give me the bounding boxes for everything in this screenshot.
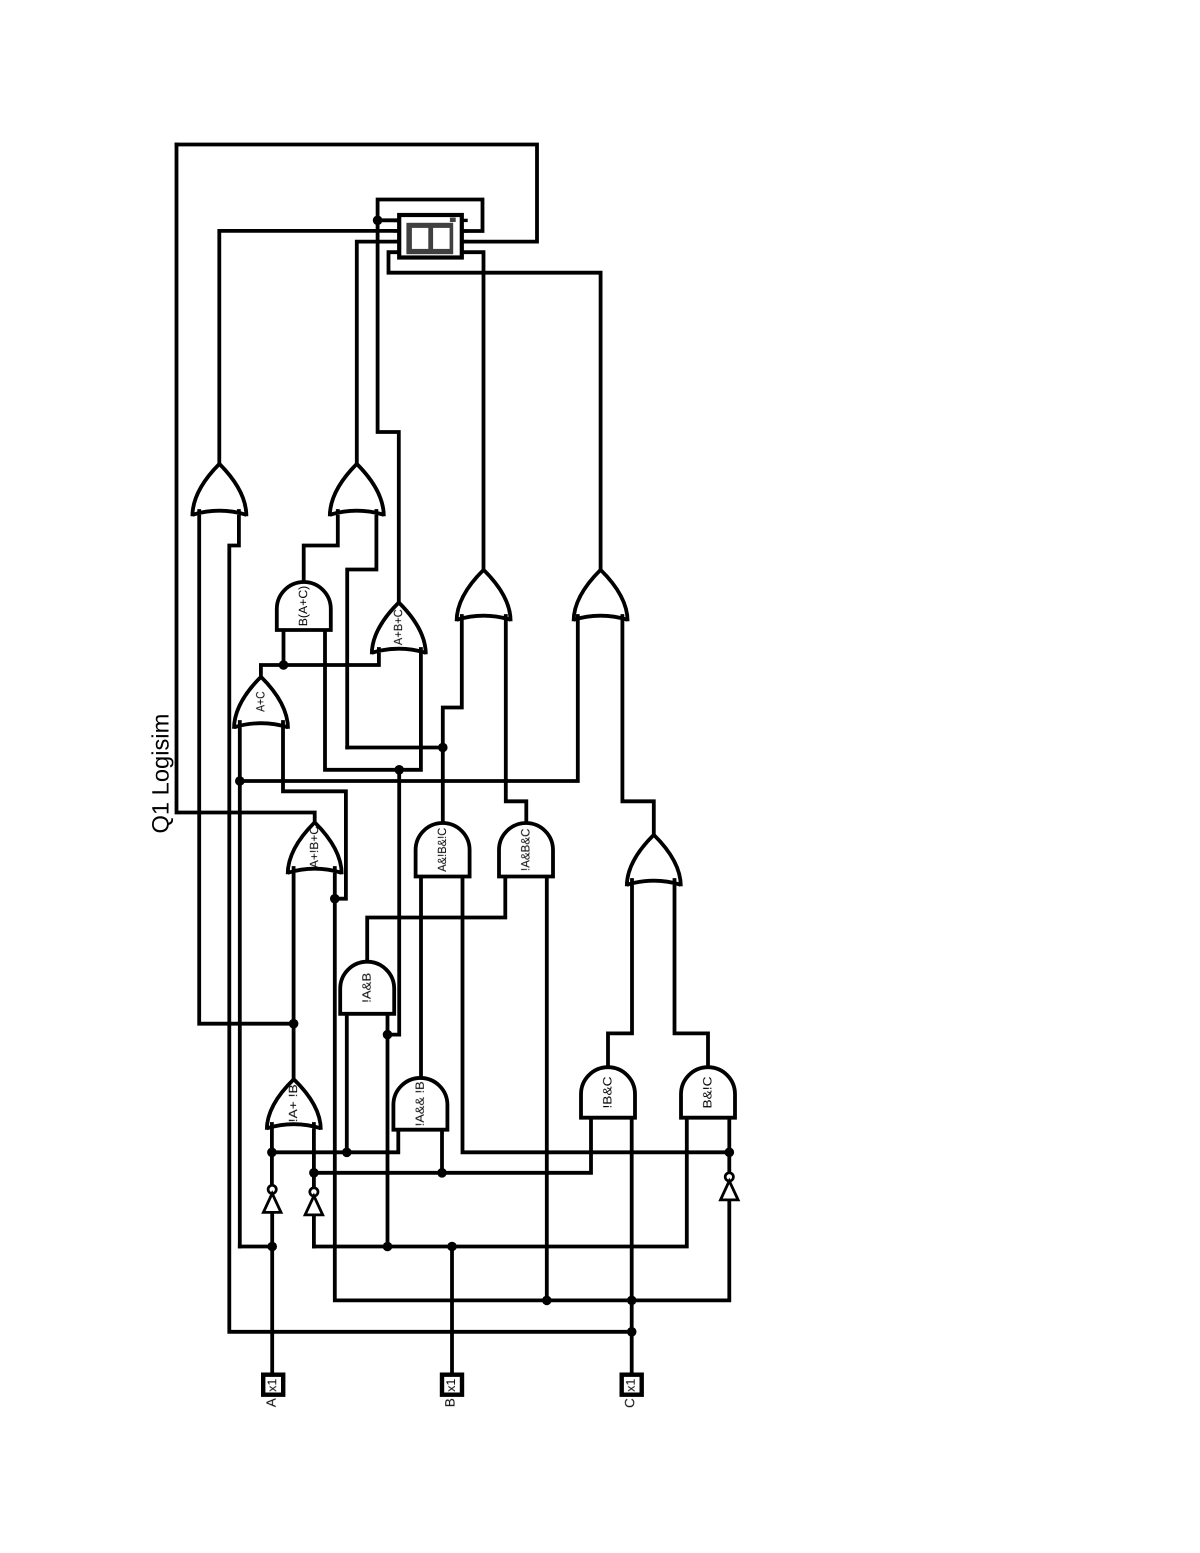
node !B rail tap: [437, 1168, 447, 1178]
node !B node: [309, 1168, 319, 1178]
7-segment display U17: [399, 215, 462, 258]
wire !A&B in2 / B vertical: [386, 1014, 390, 1247]
wire A&!B&!C in1 from !A&&!B output: [419, 877, 423, 1078]
node B to net770 node: [383, 1030, 393, 1040]
wire big OR in1 from !B&C output: [608, 880, 632, 1067]
wire B(A+C) in1 stub: [282, 630, 286, 665]
svg-text:x1: x1: [265, 1379, 279, 1392]
wire OR2 in2 jog down: [347, 511, 376, 748]
wire 7seg pin4-right to wide OR A output: [464, 252, 484, 570]
node A pin node: [267, 1242, 277, 1252]
svg-text:x1: x1: [624, 1379, 638, 1392]
node !C node: [725, 1148, 735, 1158]
wire !B&C in2 down to C pin: [630, 1118, 634, 1373]
wire wide OR A in2 from !A&B&C output: [506, 616, 527, 823]
NOT gate NOT3 (!C): [725, 1173, 733, 1181]
node C node: [330, 894, 340, 904]
node A rail tap: [235, 776, 245, 786]
OR gate U2 (unlabeled OR): [330, 464, 357, 516]
wire big OR in2 from B&!C output: [675, 880, 709, 1067]
wire A+C in2 jog to C node: [283, 722, 346, 899]
svg-text:B&!C: B&!C: [700, 1076, 714, 1108]
svg-text:A: A: [264, 1398, 279, 1407]
OR gate U1 (unlabeled OR): [192, 464, 219, 516]
svg-text:x1: x1: [444, 1379, 458, 1392]
svg-text:!A&& !B: !A&& !B: [413, 1081, 427, 1126]
wire 7seg pin3-right loop (top): [177, 145, 538, 242]
AND gate U12 !A&B: [340, 962, 394, 1014]
node C pin node: [627, 1327, 637, 1337]
node !A rail tap: [342, 1148, 352, 1158]
node B rail tap: [383, 1242, 393, 1252]
svg-text:A&!B&!C: A&!B&!C: [435, 827, 449, 871]
wire A&!B&!C in2 / !C rail: [463, 877, 730, 1153]
NOT gate NOT1 (!A): [268, 1185, 276, 1193]
wire OR1 output to 7seg pin2-left: [219, 231, 397, 464]
wire !A+!B in1 to NOT1 output: [270, 1124, 274, 1184]
node pin1 junction: [373, 216, 383, 226]
wire B(A+C) in2 to A+B+C in3 (B branch): [325, 630, 421, 770]
AND gate U3 B(A+C): [277, 582, 331, 630]
wire A+C in1 / A rail: [238, 722, 242, 1247]
wire wide OR A in1 step to A&!B&!C output: [443, 616, 462, 823]
wire A rail link: [240, 1245, 272, 1249]
wire B branch down: [388, 770, 400, 1035]
wire !A&B in1 to !A rail: [345, 1014, 349, 1153]
input pin B (B x1): [442, 1375, 462, 1395]
OR gate U7 (wide OR B): [574, 570, 601, 621]
wire OR2 in1 from B(A+C) output: [304, 511, 338, 582]
svg-text:A+C: A+C: [253, 691, 267, 712]
node A&!B&!C out node: [438, 743, 448, 753]
wire wide OR B in1 to A rail: [240, 616, 578, 781]
node B branch node: [394, 765, 404, 775]
input pin C (C x1): [622, 1375, 642, 1395]
OR gate U6 (wide OR A): [457, 570, 484, 621]
OR gate U5 A+C: [234, 677, 261, 729]
AND gate U15 !B&C: [581, 1067, 635, 1118]
AND gate U14 !A&& !B: [393, 1078, 447, 1130]
wire 7seg pin4-left to wide OR B output: [389, 252, 601, 570]
svg-text:Q1 Logisim: Q1 Logisim: [149, 714, 175, 834]
wire NOT1 input / A pin riser: [270, 1214, 274, 1372]
wire B pin riser: [450, 1247, 454, 1373]
AND gate U16 B&!C: [681, 1067, 735, 1118]
wire OR1 in2 / C rail: [229, 511, 631, 1332]
OR gate U8 A+!B+C: [288, 822, 315, 874]
wire wide OR B in2 from big OR output: [622, 616, 653, 835]
OR gate U11 (big OR): [627, 835, 654, 886]
svg-text:B(A+C): B(A+C): [296, 586, 310, 627]
wire A+!B+C in1 to !A+!B output: [292, 868, 296, 1079]
svg-text:A+!B+C: A+!B+C: [307, 826, 321, 868]
7seg digit segments: [406, 223, 453, 254]
svg-text:C: C: [622, 1398, 637, 1408]
svg-text:B: B: [443, 1398, 458, 1407]
wire !A rail to !A&&!B in1: [272, 1130, 398, 1153]
svg-text:A+B+C: A+B+C: [391, 609, 405, 645]
wire A+C output to A+B+C in1: [261, 649, 379, 677]
wire loop to 7seg pin2-right: [378, 200, 483, 232]
wire B&!C in1 / B rail: [314, 1118, 687, 1247]
AND gate U9 A&!B&!C: [416, 823, 470, 877]
NOT gate NOT2 (!B): [310, 1188, 318, 1196]
wire NOT2 input stub: [312, 1217, 316, 1247]
wire down to A+B+C output: [378, 220, 399, 602]
svg-text:!A+ !B: !A+ !B: [286, 1084, 300, 1122]
svg-text:!A&B&C: !A&B&C: [518, 828, 532, 871]
wire !A&B&C in2 to C rail: [545, 877, 549, 1301]
wire OR2 output to 7seg pin3-left: [357, 242, 398, 464]
wire B&!C in2 to NOT3 output: [727, 1118, 731, 1172]
wire A+!B+C in2 / C upper rail to NOT3 input: [335, 868, 730, 1300]
input pin A (A x1): [263, 1375, 283, 1395]
node !A node: [267, 1148, 277, 1158]
wire to 7seg pin1-left: [378, 218, 398, 222]
wire OR2 in2 link: [347, 746, 443, 750]
node B pin node: [447, 1242, 457, 1252]
node !A+!B out node: [289, 1019, 299, 1029]
svg-text:!B&C: !B&C: [600, 1076, 614, 1108]
OR gate U13 !A+ !B: [267, 1079, 294, 1130]
wire OR1 in1 down to !A+!B output node: [199, 511, 293, 1024]
wire !A&B&C in1 from !A&B output: [367, 877, 505, 962]
OR gate U4 A+B+C: [372, 603, 399, 655]
wire !A+!B in2 to NOT2 output: [312, 1124, 316, 1187]
node C rail tap: [542, 1296, 552, 1306]
wire !B rail to !B&C in1: [314, 1118, 591, 1173]
node C link upper: [627, 1296, 637, 1306]
wire left trunk to A+!B+C output: [177, 145, 315, 823]
AND gate U10 !A&B&C: [499, 823, 553, 877]
wire !A&&!B in2 to !B rail: [440, 1130, 444, 1173]
node A+C out / B(A+C) in1: [279, 660, 289, 670]
svg-text:!A&B: !A&B: [360, 973, 374, 1003]
